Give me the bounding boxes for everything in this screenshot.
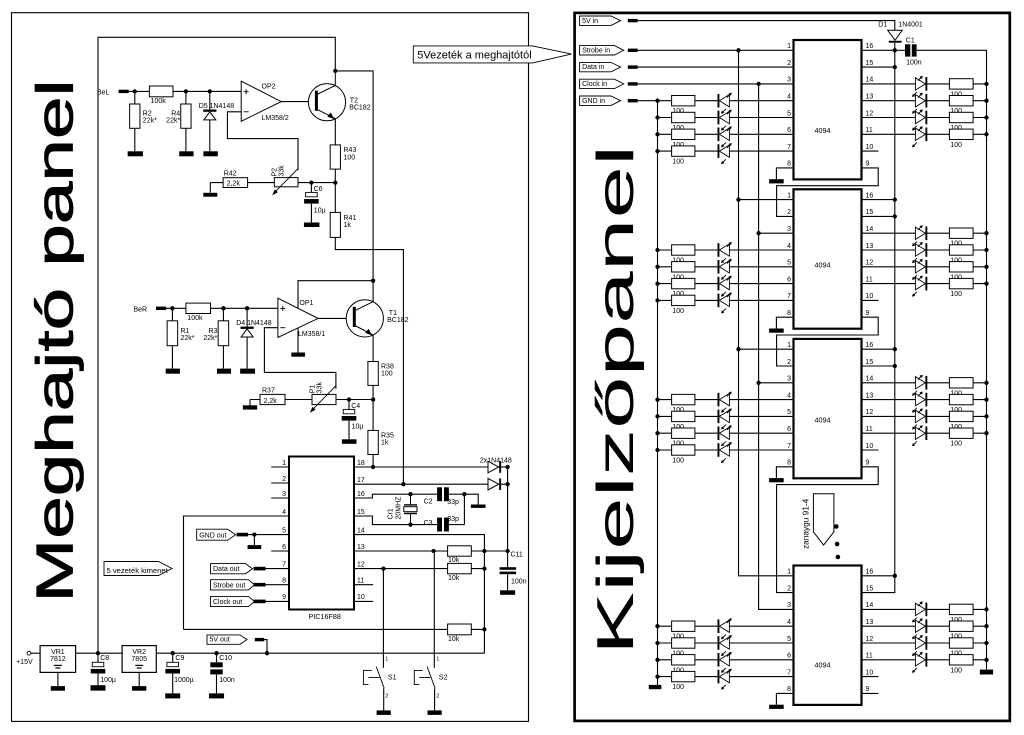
chip3 left row 2 wire (658, 415, 794, 417)
resistor 100 chip1 right row4 (949, 129, 973, 139)
svg-text:R41: R41 (344, 215, 357, 222)
svg-text:C2: C2 (424, 499, 433, 506)
chip2 right row 4 wire (862, 283, 987, 285)
chip3 right row 1 wire (862, 382, 987, 384)
junction 10k1-5V (482, 549, 486, 553)
ground VR2 (132, 686, 146, 691)
chip4 right row 4 wire (862, 659, 987, 661)
junction C10 (214, 651, 218, 655)
op-amp OP2 (241, 81, 281, 121)
callout 5V out (207, 635, 247, 644)
wire chip3 pin9 to chip4 pin2 (777, 467, 879, 593)
chip1 left row 2 wire (658, 117, 794, 119)
svg-text:18: 18 (357, 460, 365, 467)
capacitor C10 100n (216, 653, 218, 662)
chip1 pin8 ground (769, 179, 784, 183)
LED chip3 right row1 (915, 377, 925, 389)
diode D1 1N4001 (888, 30, 903, 40)
OP1 minus sign (280, 327, 285, 329)
callout Strobe in (580, 46, 624, 55)
svg-text:BC182: BC182 (387, 317, 409, 324)
diode D5 (203, 110, 216, 112)
junction GND out (252, 532, 256, 536)
junction 5V chip1 p15 (893, 65, 897, 69)
svg-text:100: 100 (344, 154, 356, 161)
junction gnd rail chip4 row4 (655, 674, 659, 678)
svg-text:VR2: VR2 (132, 649, 146, 656)
svg-text:Clock out: Clock out (213, 599, 242, 606)
svg-text:4: 4 (787, 619, 791, 626)
svg-text:22k*: 22k* (203, 335, 217, 342)
chip1 left row 3 wire (658, 133, 794, 135)
svg-text:P1: P1 (310, 385, 317, 394)
svg-text:10: 10 (866, 144, 874, 151)
LED chip1 left row2 (718, 111, 720, 125)
junction 5V chip3 p15 (893, 364, 897, 368)
capacitor C3 33p (437, 518, 442, 532)
junction C11 (505, 549, 509, 553)
LED chip2 left row2 (718, 260, 720, 274)
svg-text:P2: P2 (272, 168, 279, 177)
svg-text:5: 5 (787, 636, 791, 643)
junction gnd rail chip4 row3 (655, 658, 659, 662)
svg-text:R1: R1 (181, 328, 190, 335)
junction clamp lower (505, 482, 509, 486)
wire chip3 pin15 (862, 365, 895, 367)
resistor R4 (185, 91, 187, 104)
wire pin 4 MCLR net (184, 516, 290, 629)
svg-text:14: 14 (866, 602, 874, 609)
svg-text:6: 6 (787, 127, 791, 134)
wire D5 to ground (209, 120, 211, 151)
resistor R38 100 (368, 362, 378, 386)
junction BeL-R2 (133, 89, 137, 93)
ground C9 (165, 693, 180, 698)
svg-text:100k: 100k (151, 98, 167, 105)
junction right rail chip2 row2 (984, 248, 988, 252)
terminal Clock out stub (254, 600, 266, 604)
IC 4094 #2 body (794, 189, 862, 328)
wire chip4 pin16 (862, 575, 895, 577)
wire OP1 out to T1 base (318, 317, 353, 319)
wire P2 to C6/R43 node (298, 182, 335, 184)
svg-text:2x1N4148: 2x1N4148 (480, 457, 512, 464)
chip3 right row 4 wire (862, 432, 987, 434)
terminal GND out stub (237, 533, 248, 537)
svg-text:100n: 100n (219, 677, 235, 684)
svg-text:3: 3 (787, 602, 791, 609)
IC 4094 #4 body (794, 566, 862, 705)
svg-text:33k: 33k (279, 165, 286, 177)
svg-text:7812: 7812 (50, 656, 66, 663)
junction 5V chip1 p16 (893, 48, 897, 52)
OP2 plus sign (244, 91, 249, 93)
wire Data out to pin 7 (266, 568, 290, 570)
wire crystal caps to ground (464, 494, 478, 504)
svg-text:C3: C3 (424, 520, 433, 527)
chip4 left row 2 wire (658, 642, 794, 644)
junction right rail chip3 row2 (984, 397, 988, 401)
LED chip1 left row3 (718, 128, 720, 142)
svg-text:6: 6 (787, 426, 791, 433)
svg-text:LM358/2: LM358/2 (262, 115, 289, 122)
svg-text:4: 4 (787, 392, 791, 399)
wire D4 to ground (246, 337, 248, 369)
resistor 100 chip2 left row2 (672, 262, 695, 272)
svg-text:S2: S2 (439, 673, 448, 682)
chip4 pin8 ground (769, 705, 784, 709)
LED chip2 left row1 (718, 243, 720, 257)
svg-text:7805: 7805 (131, 656, 147, 663)
wire chip1 pin15 (862, 66, 895, 68)
svg-text:11: 11 (866, 276, 873, 283)
svg-text:GND out: GND out (199, 533, 226, 540)
callout GND in (580, 96, 621, 105)
svg-text:100: 100 (381, 371, 393, 378)
diode D clamp lower (488, 478, 499, 490)
svg-text:11: 11 (866, 426, 873, 433)
svg-text:15: 15 (866, 60, 874, 67)
LED chip1 right row1 (915, 78, 925, 90)
wire R3 to ground (222, 346, 224, 369)
svg-text:10k: 10k (448, 636, 460, 643)
svg-text:100: 100 (672, 684, 684, 691)
wire pin 17 net to diode (354, 483, 488, 485)
svg-text:C9: C9 (175, 655, 184, 662)
svg-text:2: 2 (385, 693, 388, 699)
wire OP1 V+ to rail (298, 281, 373, 309)
junction 10k2-5V (482, 566, 486, 570)
junction pin13-S2 (431, 549, 435, 553)
svg-text:100n: 100n (511, 579, 527, 586)
junction gnd rail chip3 row1 (655, 397, 659, 401)
crystal Cr1 20MHZ (410, 494, 412, 505)
svg-text:9: 9 (866, 310, 870, 317)
wire S1 to ground (383, 688, 385, 710)
svg-text:100µ: 100µ (100, 677, 116, 684)
svg-text:OP1: OP1 (299, 300, 313, 307)
resistor 100 chip3 left row4 (672, 445, 695, 455)
svg-text:+15V: +15V (16, 659, 33, 666)
chip2 pin8 ground lead (776, 317, 793, 328)
svg-text:100n: 100n (906, 59, 922, 66)
svg-text:7: 7 (282, 561, 286, 568)
junction OP1 V+ rail (371, 279, 375, 283)
svg-text:1: 1 (787, 569, 791, 576)
LED chip3 left row4 (718, 443, 720, 457)
junction right rail chip4 row1 (984, 607, 988, 611)
svg-text:8: 8 (787, 161, 791, 168)
callout Clock out (211, 596, 255, 606)
junction gnd rail chip2 row1 (655, 248, 659, 252)
svg-text:R4: R4 (171, 110, 180, 117)
resistor R3 (222, 308, 224, 321)
junction 5V out (265, 651, 269, 655)
resistor 100 chip2 right row4 (949, 278, 973, 288)
LED chip3 right row4 (915, 427, 925, 439)
ground GND out (248, 545, 262, 549)
resistor 100 chip2 left row4 (672, 295, 695, 305)
chip2 left row 3 wire (658, 283, 794, 285)
svg-text:7: 7 (787, 144, 791, 151)
LED chip4 right row1 (915, 603, 925, 615)
svg-text:3: 3 (787, 376, 791, 383)
resistor 100 chip4 left row1 (672, 621, 695, 631)
svg-text:BC182: BC182 (349, 105, 371, 112)
junction pin12-S1 (381, 566, 385, 570)
svg-text:5V out: 5V out (210, 637, 230, 644)
ground C6 (304, 223, 320, 228)
svg-text:9: 9 (866, 161, 870, 168)
chip4 pin10 stub (NC) (862, 676, 879, 678)
junction right rail chip3 row4 (984, 431, 988, 435)
ground OP1 (291, 353, 305, 357)
terminal Strobe out stub (254, 583, 266, 587)
wire R42 net (210, 182, 274, 184)
ground crystal caps (471, 505, 486, 508)
ground S2 (428, 710, 442, 715)
junction right rail chip1 row1 (984, 82, 988, 86)
svg-text:PIC16F88: PIC16F88 (309, 612, 341, 621)
resistor 100 chip4 left row3 (672, 655, 695, 665)
junction 10k3-5V (482, 627, 486, 631)
svg-text:4094: 4094 (815, 416, 831, 425)
junction gnd rail chip4 row2 (655, 641, 659, 645)
LED chip3 right row3 (915, 410, 925, 422)
svg-text:12: 12 (866, 110, 874, 117)
svg-text:BeR: BeR (134, 306, 148, 313)
ground D5 (203, 151, 217, 156)
junction clock chip2 (756, 231, 760, 235)
chip3 right row 2 wire (862, 399, 987, 401)
svg-text:15: 15 (866, 585, 874, 592)
ground R42 (203, 193, 217, 197)
wire clock rail (759, 84, 794, 610)
wire chip2 pin15 (862, 215, 895, 217)
svg-text:10: 10 (866, 443, 874, 450)
resistor 100 chip3 left row2 (672, 411, 695, 421)
svg-text:11: 11 (357, 578, 364, 585)
svg-text:T1: T1 (389, 310, 397, 317)
svg-text:2: 2 (436, 693, 439, 699)
svg-text:LM358/1: LM358/1 (298, 331, 325, 338)
svg-text:Strobe out: Strobe out (213, 582, 245, 589)
junction BeR-R1 (170, 306, 174, 310)
svg-text:100: 100 (672, 458, 684, 465)
svg-text:2: 2 (787, 209, 791, 216)
wire 5V rail (862, 43, 895, 593)
callout 5 vezetek kimenet (104, 562, 172, 576)
wire OP1 feedback to P1 wiper (264, 328, 336, 389)
svg-text:33k: 33k (317, 382, 324, 394)
junction C6 (309, 180, 313, 184)
terminal 5V out stub (255, 638, 264, 641)
terminal Clock in stub (628, 82, 638, 85)
LED chip4 right row2 (915, 620, 925, 632)
svg-text:R43: R43 (344, 147, 357, 154)
wire pin 12 net (354, 568, 484, 570)
regulator VR2 7805 (122, 646, 156, 673)
wire C1 to right rail (917, 50, 987, 669)
svg-text:1000µ: 1000µ (174, 677, 194, 684)
svg-text:1: 1 (436, 656, 439, 662)
resistor R43 100 (330, 145, 340, 169)
ground S1 (377, 710, 391, 715)
chip2 left row 4 wire (658, 299, 794, 301)
svg-text:GND in: GND in (582, 98, 605, 105)
resistor 100k (L) value (149, 86, 173, 97)
pin 1 stub (NC) (271, 466, 289, 468)
svg-text:R42: R42 (224, 171, 237, 178)
resistor 100 chip1 left row4 (672, 146, 695, 156)
chip4 right row 2 wire (862, 625, 987, 627)
wire R38 to R35 (372, 385, 374, 430)
switch S2 (427, 667, 435, 689)
svg-text:13: 13 (866, 243, 874, 250)
junction clock chip3 (756, 381, 760, 385)
svg-text:1: 1 (787, 192, 791, 199)
svg-text:Data out: Data out (213, 566, 240, 573)
chip4 pin8 ground lead (776, 693, 793, 704)
ground C11 (500, 590, 515, 595)
wire pin 15 to crystal (354, 516, 437, 525)
wire C8 to ground (97, 673, 99, 685)
wire T2 emitter to R43 (334, 119, 336, 145)
svg-text:R35: R35 (381, 433, 394, 440)
wire C3 to common (449, 524, 465, 526)
ground R1 (166, 369, 180, 374)
svg-text:Kijelzőpanel: Kijelzőpanel (587, 145, 645, 655)
chip3 left row 1 wire (658, 399, 794, 401)
svg-text:6: 6 (282, 544, 286, 551)
wire R42 ground lead (209, 183, 211, 193)
junction right rail chip4 row2 (984, 624, 988, 628)
ground GND rail (649, 685, 662, 689)
svg-text:4: 4 (787, 94, 791, 101)
chip4 left row 3 wire (658, 659, 794, 661)
svg-text:14: 14 (866, 77, 874, 84)
junction R3 top (221, 306, 225, 310)
junction right rail chip3 row1 (984, 381, 988, 385)
svg-text:R2: R2 (143, 110, 152, 117)
junction 5V chip2 p16 (893, 197, 897, 201)
svg-text:Strobe in: Strobe in (582, 47, 610, 54)
chip1 right row 2 wire (862, 100, 987, 102)
LED chip4 right row4 (915, 654, 925, 666)
pin 6 stub (NC) (271, 550, 289, 552)
terminal +15V (27, 651, 31, 655)
junction D5 top (208, 89, 212, 93)
OP1 plus sign (280, 308, 285, 310)
svg-text:12: 12 (866, 636, 874, 643)
LED chip1 left row1 (718, 94, 720, 108)
wire Strobe in net (638, 49, 794, 51)
wire strobe rail (739, 50, 794, 576)
svg-text:13: 13 (357, 544, 365, 551)
LED chip3 left row1 (718, 393, 720, 407)
junction crystal bottom (408, 522, 412, 526)
svg-text:14: 14 (357, 527, 365, 534)
transistor T1 BC182 (346, 300, 383, 337)
LED chip1 right row4 (915, 128, 925, 140)
chip1 pin10 stub (NC) (862, 150, 879, 152)
svg-text:5: 5 (282, 527, 286, 534)
junction R43-R41 (333, 180, 337, 184)
svg-text:VR1: VR1 (51, 649, 65, 656)
svg-text:100: 100 (950, 142, 962, 149)
ground VR1 (51, 686, 65, 691)
svg-text:15: 15 (866, 359, 874, 366)
svg-text:C6: C6 (314, 186, 323, 193)
callout 5V in (580, 16, 621, 25)
svg-text:D4 1N4148: D4 1N4148 (236, 320, 272, 327)
svg-text:16: 16 (357, 491, 365, 498)
svg-text:13: 13 (866, 392, 874, 399)
chip2 left row 1 wire (658, 249, 794, 251)
wire 5V/12V bottom rail (31, 652, 485, 654)
junction C8 (96, 651, 100, 655)
wire strobe to chip2 pin1 (739, 199, 794, 201)
left panel border (12, 13, 529, 722)
resistor 100 chip2 left row3 (672, 278, 695, 288)
svg-text:C8: C8 (100, 655, 109, 662)
wire clock to chip3 pin3 (759, 382, 794, 384)
svg-text:12: 12 (357, 561, 365, 568)
svg-text:6: 6 (787, 653, 791, 660)
resistor R2 (134, 91, 136, 104)
svg-text:14: 14 (866, 376, 874, 383)
wire D5 top (209, 91, 211, 109)
resistor 100 chip4 right row3 (949, 638, 973, 648)
potentiometer P2 body (274, 178, 298, 187)
svg-text:4: 4 (282, 509, 286, 516)
LED chip2 right row1 (915, 227, 925, 239)
svg-text:14: 14 (866, 226, 874, 233)
svg-text:1: 1 (787, 43, 791, 50)
svg-text:OP2: OP2 (262, 83, 276, 90)
chip2 pin8 ground (769, 329, 784, 333)
svg-text:2: 2 (787, 359, 791, 366)
junction C9 (171, 651, 175, 655)
wire chip1 pin9 to chip2 pin2 (777, 168, 879, 217)
callout Clock in (580, 79, 624, 88)
junction right rail chip1 row3 (984, 115, 988, 119)
svg-text:6: 6 (787, 276, 791, 283)
ground right rail (980, 670, 993, 675)
wire T1 emitter to R38 (372, 335, 374, 362)
resistor 100 chip1 left row1 (672, 96, 695, 106)
resistor 10k pullup MCLR (448, 624, 472, 635)
wire pin 13 net (354, 550, 508, 552)
svg-text:9: 9 (282, 594, 286, 601)
wire clock to chip2 pin3 (759, 232, 794, 234)
junction right rail chip2 row3 (984, 265, 988, 269)
chip2 right row 1 wire (862, 232, 987, 234)
junction crystal caps common (462, 492, 466, 496)
node T2 collector junction (333, 69, 337, 73)
P2 wiper arrow (274, 169, 298, 193)
pin 10 stub (NC) (354, 600, 373, 602)
junction right rail chip1 row2 (984, 99, 988, 103)
junction gnd rail chip3 row4 (655, 448, 659, 452)
svg-text:4094: 4094 (815, 661, 831, 670)
switch S1 (376, 667, 384, 689)
chip3 pin10 stub (NC) (862, 449, 879, 451)
junction strobe chip2 (736, 197, 740, 201)
svg-text:22k*: 22k* (166, 118, 180, 125)
junction pin18-R35 (371, 465, 375, 469)
resistor 100 chip4 right row1 (949, 604, 973, 614)
